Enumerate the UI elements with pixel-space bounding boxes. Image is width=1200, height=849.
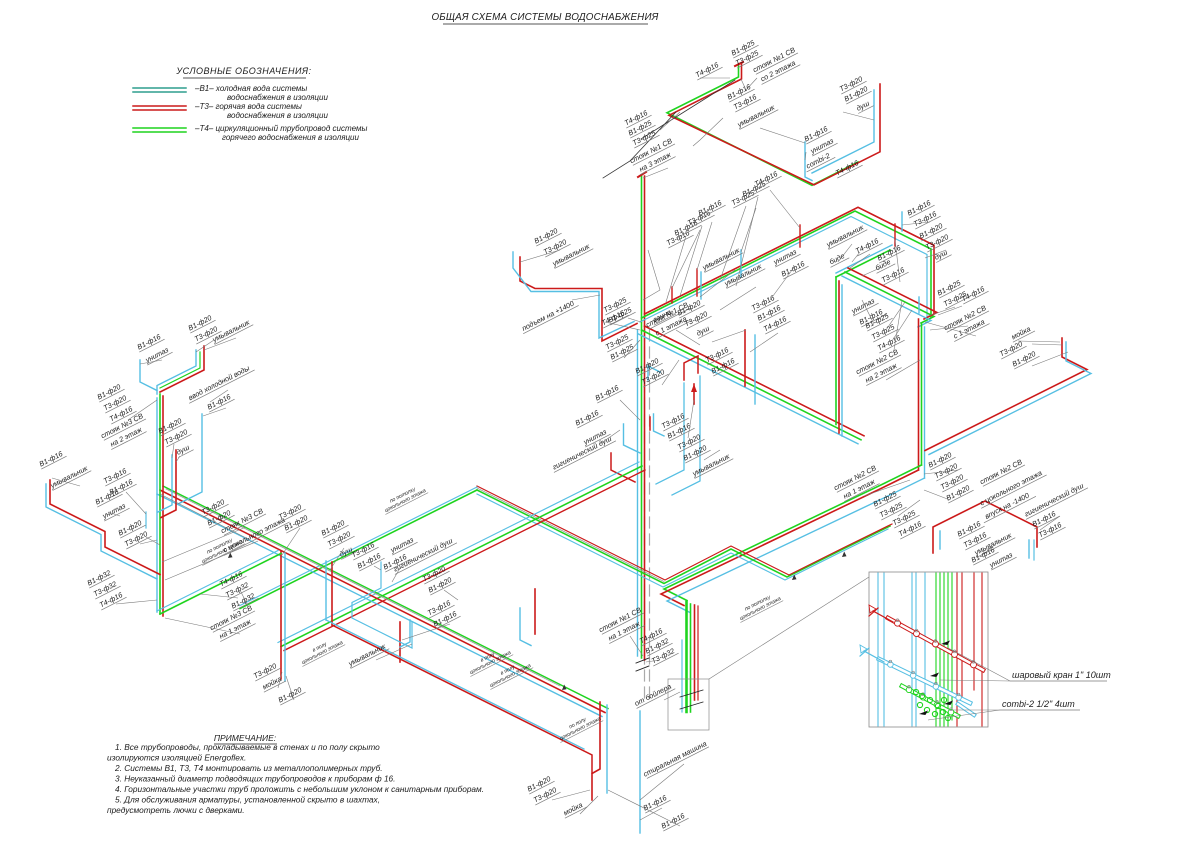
label Т3-ф20: [325, 528, 355, 549]
label биде: [872, 256, 895, 274]
leader line: [203, 408, 226, 416]
label В1-ф25: [608, 341, 638, 362]
stack3 to basement link: [160, 554, 281, 615]
leader line: [620, 400, 640, 420]
label Т3-ф25: [729, 187, 759, 208]
label мойка: [561, 799, 587, 819]
leader line: [666, 236, 686, 302]
stack top tick: [735, 62, 743, 66]
leader line: [640, 764, 684, 800]
label унитаз: [581, 426, 611, 447]
label умывальник: [700, 244, 743, 272]
leader line: [210, 390, 228, 402]
leader line: [646, 660, 660, 662]
leader line: [895, 240, 900, 282]
label Т3-ф16: [1036, 519, 1066, 540]
label Т3-ф16: [749, 292, 779, 313]
svg-text:combi-2: combi-2: [804, 151, 831, 171]
label В1-ф20: [282, 512, 312, 533]
leader line: [108, 512, 120, 516]
leader line: [392, 568, 400, 582]
leader line: [760, 128, 805, 143]
leader line: [374, 566, 381, 570]
label В1-ф20: [842, 83, 872, 104]
label ванна: [650, 306, 676, 326]
shower basement drops: [325, 561, 327, 620]
label с цокольного этажа: [220, 514, 290, 556]
svg-text:–В1– холодная вода системы: –В1– холодная вода системы: [194, 84, 307, 93]
wire T3 floor2-left upper run: [645, 207, 935, 314]
label унитаз: [771, 246, 801, 267]
leader line: [805, 152, 806, 160]
run note по полу цокольного этажа: [555, 710, 603, 742]
leader line: [605, 322, 640, 330]
wire basement west descent from peak1: [240, 490, 477, 609]
leader line: [1018, 341, 1060, 342]
L10 red fixture zigzag: [611, 453, 635, 482]
leader line: [140, 360, 162, 364]
label Т3-ф25: [941, 288, 971, 309]
label В1-ф25: [729, 37, 759, 58]
leader line: [162, 527, 246, 562]
label на 1 этаж: [605, 617, 645, 643]
label В1-ф16: [1030, 508, 1060, 529]
cold inlet drop (vvod): [178, 414, 202, 504]
label на 1 этаж: [840, 475, 880, 501]
svg-text:мойка: мойка: [1010, 324, 1032, 341]
label В1-ф16: [93, 486, 123, 507]
label В1-ф32: [229, 590, 259, 611]
leader line: [741, 78, 757, 90]
svg-text:душ: душ: [933, 248, 949, 262]
leader line: [140, 540, 157, 544]
label Т3-ф25: [630, 127, 660, 148]
leader line: [330, 548, 344, 570]
label В1-ф16: [665, 420, 695, 441]
label В1-ф25: [871, 488, 901, 509]
bath drops to floor1: [656, 383, 684, 484]
label В1-ф32: [85, 567, 115, 588]
label Т3-ф20: [420, 563, 450, 584]
label ввод холодной воды: [185, 362, 255, 404]
svg-text:умывальник: умывальник: [346, 641, 388, 668]
label В1-ф16: [857, 306, 887, 327]
label В1-ф25: [863, 310, 893, 331]
label В1-ф16: [755, 302, 785, 323]
svg-text:–Т4– циркуляционный трубопров: –Т4– циркуляционный трубопровод системы: [194, 124, 367, 133]
shaft dashed axis: [644, 330, 646, 700]
label Т3-ф20: [837, 73, 867, 94]
legend line B1: [133, 87, 186, 89]
label мойка: [1009, 323, 1035, 343]
label В1-ф16: [573, 407, 603, 428]
wire T3 floor2 run: [645, 326, 865, 436]
label В1-ф16: [135, 331, 165, 352]
label биде: [826, 250, 849, 268]
svg-text:В1-ф16: В1-ф16: [38, 449, 65, 468]
label combi-2: [802, 149, 835, 172]
svg-text:водоснабжения в изоляции: водоснабжения в изоляции: [227, 93, 328, 102]
leader line: [520, 250, 560, 262]
label В1-ф16: [672, 217, 702, 238]
label В1-ф20: [681, 442, 711, 463]
leader line: [172, 444, 174, 458]
boiler columns: [685, 602, 688, 712]
label Т4-ф16: [97, 589, 127, 610]
leader line: [552, 790, 590, 800]
label Т3-ф25: [877, 499, 907, 520]
wire basement east run: [664, 465, 922, 601]
label Т3-ф16: [911, 208, 941, 229]
leader line: [924, 490, 950, 500]
leader line: [1040, 516, 1060, 530]
label умывальник: [690, 450, 733, 478]
leader line: [628, 318, 641, 322]
label Т3-ф20: [192, 323, 222, 344]
label В1-ф16: [802, 123, 832, 144]
label стиральная машина: [642, 739, 709, 779]
leader line: [160, 494, 250, 540]
label В1-ф20: [116, 517, 146, 538]
svg-text:водоснабжения в изоляции: водоснабжения в изоляции: [227, 111, 328, 120]
wire floor-run basement (v polu): [332, 625, 592, 773]
label В1-ф20: [205, 507, 235, 528]
label умывальник: [48, 462, 91, 490]
wire cold podyom: [513, 252, 634, 338]
leader line: [850, 254, 870, 268]
hygiene shower zigzag basement-left: [352, 562, 412, 648]
label стояк №2 СВ: [832, 463, 879, 493]
leader line: [116, 600, 157, 604]
unitaz drop left: [140, 360, 157, 391]
leader line: [282, 528, 300, 555]
svg-text:combi-2 1/2" 4шт: combi-2 1/2" 4шт: [1002, 699, 1075, 709]
label В1-ф20: [95, 381, 125, 402]
bath shower drops floor2 left: [744, 330, 746, 386]
leader line: [930, 326, 968, 330]
leader line: [624, 340, 640, 358]
leader line: [770, 190, 800, 228]
label Т4-ф16: [875, 332, 905, 353]
label Т4-ф16: [896, 518, 926, 539]
label Т3-ф32: [649, 645, 679, 666]
label стояк №2 СВ: [854, 347, 901, 377]
leader line: [741, 208, 756, 252]
label стояк №1 СВ: [628, 136, 675, 166]
leader line: [700, 77, 730, 79]
label Т3-ф16: [659, 410, 689, 431]
stack 2 riser: [921, 323, 923, 465]
run note в полу цокольного этажа: [465, 644, 513, 676]
leader line: [643, 250, 660, 300]
wire hot podyom: [520, 257, 637, 341]
label В1-ф16: [969, 544, 999, 565]
label В1-ф16: [593, 382, 623, 403]
svg-text:4. Горизонтальные участки труб: 4. Горизонтальные участки труб проложить…: [115, 784, 484, 794]
west wing pair: [50, 480, 160, 575]
svg-text:от бойлера: от бойлера: [633, 682, 673, 708]
combi chain green: [902, 686, 958, 716]
leader line: [925, 322, 976, 336]
label Т3-ф20: [923, 231, 953, 252]
label Т3-ф20: [122, 528, 152, 549]
leader line: [720, 206, 746, 280]
svg-text:В1-ф16: В1-ф16: [660, 811, 687, 830]
label В1-ф20: [633, 355, 663, 376]
leader line: [770, 266, 795, 300]
svg-text:3. Неуказанный диаметр подводя: 3. Неуказанный диаметр подводящих трубоп…: [115, 774, 395, 784]
svg-text:душ: душ: [695, 324, 711, 338]
label Т3-ф16: [685, 207, 715, 228]
leader line: [676, 330, 700, 345]
label со 2 этажа: [757, 56, 800, 84]
svg-text:В1-ф16: В1-ф16: [594, 383, 621, 402]
label гигиенический душ: [391, 535, 457, 575]
label Т3-ф16: [731, 91, 761, 112]
leader line: [704, 450, 720, 460]
label В1-ф25: [935, 277, 965, 298]
label умывальник: [550, 240, 593, 268]
label Т4-ф16: [217, 568, 247, 589]
label душ: [337, 543, 357, 559]
label стояк №1 СВ: [751, 45, 798, 75]
leader line: [864, 480, 910, 496]
leader line: [376, 644, 412, 660]
leader line: [886, 302, 905, 330]
label Т3-ф16: [425, 597, 455, 618]
leader line: [1032, 344, 1063, 345]
label стояк №3 СВ: [219, 506, 266, 536]
label от бойлера: [632, 680, 675, 708]
label Т3-ф20: [199, 496, 229, 517]
label душ: [932, 246, 952, 262]
label Т3-ф16: [879, 264, 909, 285]
label умывальник: [972, 529, 1015, 557]
leader line: [672, 230, 700, 288]
label Т4-ф16: [599, 307, 629, 328]
leader line: [862, 268, 880, 276]
label Т3-ф16: [961, 529, 991, 550]
run note в полу цокольного этажа: [297, 634, 345, 666]
svg-text:ОБЩАЯ СХЕМА СИСТЕМЫ ВОДОСНАБЖЕ: ОБЩАЯ СХЕМА СИСТЕМЫ ВОДОСНАБЖЕНИЯ: [431, 12, 658, 23]
wire basement run B: [160, 490, 605, 713]
leader line: [736, 197, 758, 286]
leader line: [886, 360, 920, 380]
leader line: [1032, 352, 1068, 366]
label В1-ф16: [725, 81, 755, 102]
wire branch to stack2: [845, 272, 934, 323]
label Т3-ф20: [938, 471, 968, 492]
label Т4-ф16: [752, 168, 782, 189]
leader line: [750, 333, 778, 352]
label унитаз: [987, 549, 1017, 570]
svg-text:изолируются изоляцией Energofl: изолируются изоляцией Energoflex.: [107, 753, 246, 763]
label Т3-ф20: [541, 236, 571, 257]
leader line: [52, 478, 80, 486]
svg-text:мойка: мойка: [562, 800, 584, 817]
label Т4-ф16: [637, 625, 667, 646]
run note в полу цокольного этажа: [485, 657, 533, 689]
label душ: [174, 441, 194, 457]
label В1-ф16: [659, 810, 689, 831]
label В1-ф16: [107, 476, 137, 497]
label Т3-ф20: [932, 460, 962, 481]
leader line: [902, 222, 930, 225]
leader line: [165, 541, 258, 580]
shower drop right: [918, 297, 920, 313]
label стояк №3 СВ: [99, 411, 146, 441]
svg-text:умывальник: умывальник: [48, 463, 90, 490]
label В1-ф16: [431, 608, 461, 629]
leader line: [196, 340, 214, 352]
leader line: [572, 295, 600, 300]
label Т3-ф32: [223, 579, 253, 600]
leader line: [200, 594, 238, 598]
label душ: [854, 97, 874, 113]
label умывальник: [722, 260, 765, 288]
run note по потолку цокольного этажа: [197, 533, 245, 565]
label Т3-ф25: [733, 47, 763, 68]
label В1-ф20: [319, 517, 349, 538]
label стояк №1 СВ: [644, 300, 691, 330]
label В1-ф16: [955, 518, 985, 539]
label стояк №1 СВ: [597, 605, 644, 635]
svg-text:–Т3– горячая вода системы: –Т3– горячая вода системы: [194, 102, 302, 111]
label Т3-ф20: [162, 426, 192, 447]
label Т3-ф20: [251, 660, 281, 681]
label с 1 этажа: [652, 312, 692, 338]
floor2 feed left (fixtures to stack3 top): [160, 346, 204, 392]
dush pair left: [161, 450, 176, 518]
label умывальник: [824, 221, 867, 249]
label умывальник: [346, 640, 389, 668]
leader line: [697, 222, 712, 270]
label В1-ф20: [926, 449, 956, 470]
run note по потолку цокольного этажа: [380, 482, 428, 514]
leader line: [693, 118, 723, 146]
svg-text:горячего водоснабжения в изоля: горячего водоснабжения в изоляции: [222, 133, 359, 142]
leader line: [640, 808, 662, 820]
label впуск на -1400: [980, 488, 1036, 523]
leader line: [925, 250, 946, 258]
svg-text:душ: душ: [855, 99, 871, 113]
svg-text:предусмотреть лючки с дверками: предусмотреть лючки с дверками.: [107, 805, 245, 815]
black arrows: [941, 641, 950, 646]
label В1-ф16: [779, 258, 809, 279]
label В1-ф32: [643, 635, 673, 656]
svg-text:1. Все трубопроводы, прокладыв: 1. Все трубопроводы, прокладываемые в ст…: [115, 742, 380, 752]
label В1-ф16: [875, 242, 905, 263]
run note по потолку цокольного этажа: [735, 590, 783, 622]
label В1-ф25: [626, 117, 656, 138]
ball valve chain red: [888, 618, 983, 670]
label Т3-ф16: [101, 465, 131, 486]
svg-text:5. Для обслуживания арматуры,: 5. Для обслуживания арматуры, установлен…: [115, 795, 380, 805]
label душ: [694, 322, 714, 338]
label стояк №3 СВ: [208, 603, 255, 633]
label Т3-ф32: [91, 578, 121, 599]
svg-text:2. Системы В1, Т3, Т4 монтиров: 2. Системы В1, Т3, Т4 монтировать из мет…: [114, 763, 383, 773]
label Т3-ф20: [682, 308, 712, 329]
label унитаз: [100, 500, 130, 521]
label унитаз: [143, 344, 173, 365]
wire floor2 right to fixtures: [836, 250, 890, 277]
wire basement mid W-run: [477, 490, 890, 584]
leader line: [986, 540, 1000, 552]
label Т3-ф25: [869, 321, 899, 342]
svg-text:подъем на +1400: подъем на +1400: [520, 299, 575, 333]
leader line: [240, 590, 248, 606]
wire T4 floor3 green: [667, 64, 858, 185]
label стояк №2 СВ: [978, 457, 1025, 487]
washing machine drops: [606, 705, 608, 793]
label В1-ф20: [532, 225, 562, 246]
label на 2 этаж: [107, 423, 147, 449]
small valve marks boiler: [680, 690, 703, 697]
svg-text:Т4-ф16: Т4-ф16: [960, 284, 986, 303]
svg-text:УСЛОВНЫЕ ОБОЗНАЧЕНИЯ:: УСЛОВНЫЕ ОБОЗНАЧЕНИЯ:: [175, 66, 311, 76]
label стояк №2 СВ: [942, 303, 989, 333]
label Т4-ф16: [959, 283, 989, 304]
label Т4-ф16: [622, 107, 652, 128]
label В1-ф16: [205, 391, 235, 412]
wire T4 floor2 run: [642, 330, 862, 440]
svg-text:В1-ф16: В1-ф16: [642, 793, 669, 812]
svg-text:шаровый кран 1" 10шт: шаровый кран 1" 10шт: [1012, 670, 1111, 680]
leader line: [712, 330, 746, 342]
leader line: [630, 636, 643, 656]
leader line: [278, 672, 282, 688]
label Т3-ф20: [276, 501, 306, 522]
label с 1 этажа: [950, 315, 990, 341]
leader line: [165, 618, 240, 634]
label В1-ф16: [37, 448, 67, 469]
svg-text:душ: душ: [175, 443, 191, 457]
leader line: [444, 590, 458, 600]
label В1-ф20: [276, 684, 306, 705]
label В1-ф16: [381, 551, 411, 572]
label Т4-ф16: [693, 59, 723, 80]
leader line: [838, 244, 852, 262]
leader line: [928, 307, 955, 316]
leader line: [862, 300, 874, 324]
run arrows: [228, 553, 233, 559]
label умывальник: [210, 316, 253, 344]
leader line: [643, 168, 668, 178]
leader line: [898, 500, 920, 516]
leader line: [608, 790, 680, 826]
fixture drops on upper run: [671, 287, 673, 303]
label В1-ф20: [525, 773, 555, 794]
leader line: [580, 796, 598, 814]
leader line: [126, 492, 146, 514]
wire T4 floor2-left upper run: [642, 211, 932, 318]
label Т3-ф20: [997, 338, 1027, 359]
leader line: [892, 310, 912, 341]
leader line: [843, 112, 874, 120]
label на 2 этаж: [862, 359, 902, 385]
legend line T4: [133, 127, 186, 129]
label унитаз: [388, 534, 418, 555]
moika basement drops: [280, 551, 282, 679]
leader line: [402, 624, 450, 640]
label Т3-ф16: [664, 227, 694, 248]
wire B1 unitaz drop floor3: [805, 142, 812, 181]
riser to floor2 right: [835, 277, 837, 425]
wire T3 floor3 red: [669, 64, 880, 185]
wire stack1 basement branch down-left: [281, 466, 642, 647]
label В1-ф20: [944, 482, 974, 503]
